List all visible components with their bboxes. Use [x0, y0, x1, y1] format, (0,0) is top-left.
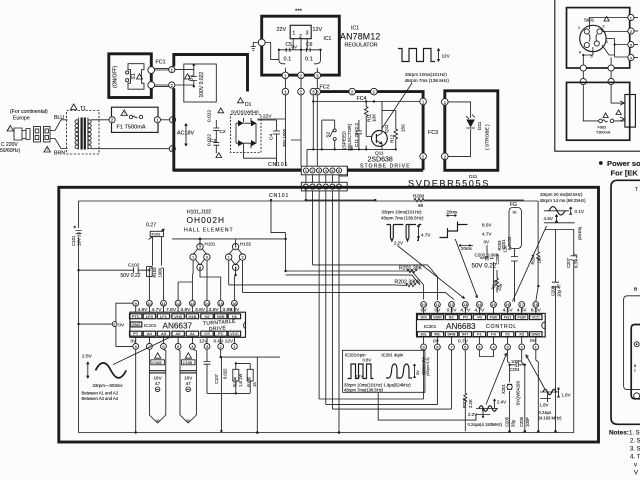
GND pin label: [130, 322, 142, 327]
pin leads into caps: [136, 349, 197, 432]
resistor R103: [147, 267, 153, 277]
svg-text:35V 1000: 35V 1000: [282, 128, 287, 147]
svg-text:!: !: [47, 148, 48, 152]
square wave pin7: [348, 364, 374, 379]
svg-text:20ms: 20ms: [447, 210, 459, 215]
svg-text:1.6V: 1.6V: [562, 393, 571, 398]
svg-text:1.8V: 1.8V: [540, 403, 549, 408]
switch S1: [128, 64, 144, 89]
pin 10 IC201: [421, 302, 427, 308]
svg-text:F902: F902: [598, 126, 607, 130]
svg-text:(SPEED: (SPEED: [342, 131, 348, 149]
svg-text:4.7V: 4.7V: [482, 232, 492, 237]
loop pins 5-4: [479, 350, 493, 357]
svg-text:00: 00: [513, 211, 517, 215]
resistor R105: [247, 369, 253, 381]
capacitor C4: [273, 120, 280, 150]
thick feed wire: pin1 up over to regulator enclosure: [174, 55, 423, 171]
svg-text:X201: X201: [501, 384, 506, 394]
wire 0V to inner edge: [79, 323, 113, 325]
svg-text:C204: C204: [510, 367, 521, 372]
svg-text:7.6V: 7.6V: [166, 307, 177, 313]
svg-text:H102: H102: [240, 242, 251, 247]
svg-text:14: 14: [205, 302, 209, 306]
svg-text:22V: 22V: [277, 27, 287, 33]
svg-text:T: T: [635, 187, 638, 193]
svg-text:4.7V: 4.7V: [152, 307, 163, 313]
svg-text:Europe: Europe: [13, 116, 30, 122]
pin 9 IC101: [133, 300, 139, 306]
svg-text:33μ: 33μ: [511, 419, 516, 427]
svg-text:F: F: [114, 323, 116, 327]
svg-text:68: 68: [418, 203, 424, 208]
pin 6 IC201: [462, 344, 468, 350]
svg-text:Power so: Power so: [607, 159, 640, 168]
thick FC2 bus to FC4: [321, 92, 424, 170]
svg-text:FC1: FC1: [156, 60, 166, 66]
capacitor C105: [180, 353, 196, 423]
pin 13 IC201: [462, 302, 468, 308]
IC101 top pin leads: [136, 306, 235, 312]
svg-text:C101: C101: [71, 235, 76, 246]
svg-text:3: 3: [507, 346, 509, 350]
ground symbol: [251, 43, 259, 51]
svg-text:CONTROL: CONTROL: [486, 324, 517, 330]
svg-text:S2: S2: [326, 131, 331, 137]
svg-text:FG1: FG1: [504, 315, 513, 320]
pin 12 IC201: [449, 302, 455, 308]
svg-text:5: 5: [331, 169, 333, 173]
FC1 terminals on switch box: [148, 67, 155, 74]
svg-text:C205: C205: [505, 416, 510, 427]
svg-text:1: 1: [578, 26, 580, 30]
svg-text:12V: 12V: [442, 54, 451, 59]
svg-text:T300mA: T300mA: [596, 131, 611, 135]
svg-text:V0: V0: [477, 315, 483, 320]
wire CN101-1 drop: [306, 189, 375, 200]
Power source heading: [599, 161, 603, 165]
strobe lamp D11: [448, 102, 470, 156]
capacitor C107: [204, 349, 222, 393]
svg-text:R103: R103: [152, 267, 157, 278]
svg-text:OH002H: OH002H: [187, 215, 226, 225]
svg-text:0.27: 0.27: [146, 223, 156, 229]
pointer line to Q11: [382, 83, 413, 129]
return wire loops to IC201 bottom pins: [319, 350, 476, 420]
diode bridge D1: [238, 98, 244, 103]
svg-text:50V 0.22: 50V 0.22: [472, 262, 497, 269]
svg-text:A3: A3: [161, 331, 167, 336]
pin 8 IC201: [435, 344, 441, 350]
svg-text:K103: K103: [152, 233, 161, 237]
svg-text:0.6V 12V: 0.6V 12V: [214, 339, 235, 345]
pointer to pin2: [526, 355, 545, 389]
svg-text:C11 25V2.2: C11 25V2.2: [354, 123, 359, 147]
svg-text:!: !: [124, 112, 125, 116]
svg-text:0V: 0V: [421, 308, 428, 314]
svg-text:3.8V: 3.8V: [209, 307, 220, 313]
svg-text:SVQW54193: SVQW54193: [516, 380, 521, 405]
svg-text:F1: F1: [477, 332, 482, 337]
svg-text:0V: 0V: [434, 308, 441, 314]
IC201 top voltages: [421, 308, 542, 314]
wires FC1 to pins: [155, 69, 169, 87]
svg-text:2: 2: [312, 169, 314, 173]
IC101 top voltages: [137, 307, 240, 313]
svg-text:2: 2: [603, 25, 605, 29]
FG wires down to IC201: [511, 249, 518, 303]
svg-text:For [EK: For [EK: [611, 169, 639, 178]
svg-text:IC201 ④pin: IC201 ④pin: [382, 353, 404, 358]
svg-text:D11: D11: [477, 121, 483, 130]
capacitor C102: [79, 269, 150, 271]
svg-text:4.7V: 4.7V: [474, 308, 485, 314]
svg-text:3: 3: [242, 256, 244, 260]
pointer FG note to pin16: [512, 226, 546, 302]
svg-text:3: 3: [206, 345, 208, 349]
transformer T901 rect: [625, 95, 636, 128]
pin 11 IC201: [435, 302, 441, 308]
svg-text:4.5V: 4.5V: [503, 308, 514, 314]
sine note pin2: [543, 389, 556, 395]
svg-text:0.6V: 0.6V: [447, 308, 458, 314]
pin 8 IC101: [133, 344, 139, 350]
svg-text:Q11: Q11: [384, 124, 390, 133]
pin 16 IC101: [232, 300, 238, 306]
connector pin 2 (FC2): [349, 88, 356, 95]
svg-text:13: 13: [463, 303, 467, 307]
capacitor C11: [356, 120, 362, 149]
svg-text:F1 T500mA: F1 T500mA: [117, 125, 146, 131]
svg-text:C206: C206: [519, 416, 524, 427]
pin 3 IC101: [204, 344, 210, 350]
cartridge detail box: [624, 296, 640, 390]
label: For continental Europe note: [0, 109, 48, 154]
D11 strobe box: [445, 91, 498, 171]
svg-text:CN101: CN101: [268, 162, 288, 168]
svg-text:v: v: [634, 463, 637, 469]
regulator enclosure box: [262, 16, 340, 75]
svg-text:2: 2: [220, 345, 222, 349]
terminal 1 motor: [628, 14, 634, 20]
svg-text:Notes:: Notes:: [609, 430, 629, 437]
svg-text:47: 47: [155, 381, 161, 386]
svg-text:4. T: 4. T: [630, 455, 640, 461]
svg-text:HALL ELEMENT: HALL ELEMENT: [184, 228, 234, 234]
svg-text:FC2: FC2: [320, 85, 330, 91]
svg-text:AN6683: AN6683: [446, 322, 476, 331]
svg-text:5: 5: [478, 346, 480, 350]
svg-text:17: 17: [520, 303, 524, 307]
svg-text:1: 1: [305, 169, 307, 173]
CN101 socket row 2: [301, 182, 347, 191]
svg-text:C107: C107: [214, 373, 219, 384]
svg-text:SSM: SSM: [433, 315, 442, 320]
svg-text:16V 33: 16V 33: [77, 232, 82, 246]
svg-text:1.8 1W: 1.8 1W: [238, 374, 243, 387]
svg-text:50V 0.22: 50V 0.22: [121, 273, 141, 279]
wires K103 to pins 10,11: [149, 237, 163, 301]
svg-text:15: 15: [491, 303, 495, 307]
pin 7 IC201: [449, 344, 455, 350]
connector pin 1 (FC4 top): [371, 88, 378, 95]
svg-text:AN6637: AN6637: [163, 321, 193, 330]
svg-text:0.24μs: 0.24μs: [539, 410, 552, 415]
svg-text:100V 0.022: 100V 0.022: [199, 72, 205, 98]
svg-text:AN78M12: AN78M12: [340, 32, 381, 42]
svg-text:9: 9: [423, 346, 425, 350]
pin 9 IC201: [421, 344, 427, 350]
pin 5 IC201: [477, 344, 483, 350]
connector pin 2 (AC line): [169, 146, 175, 152]
svg-text:(ON/OFF): (ON/OFF): [113, 65, 119, 88]
main board outer box: [59, 187, 599, 442]
connector pin 2 on F1 box: [109, 117, 115, 123]
svg-text:C106: C106: [152, 360, 161, 365]
svg-text:1: 1: [228, 256, 230, 260]
svg-text:3.8V: 3.8V: [195, 307, 206, 313]
svg-text:3.8V: 3.8V: [229, 307, 240, 313]
svg-text:B1: B1: [449, 315, 455, 320]
svg-text:PTC: PTC: [132, 314, 140, 319]
svg-text:11: 11: [162, 302, 166, 306]
AC plug P1: [14, 128, 30, 140]
svg-text:1: 1: [192, 256, 194, 260]
transistor Q11: [372, 131, 388, 147]
svg-text:2.2K: 2.2K: [468, 399, 473, 408]
wire T1 secondary to fuse: [91, 119, 111, 121]
switch S2: [322, 120, 335, 149]
pointer sine to A-pins: [113, 336, 172, 364]
svg-text:120: 120: [503, 245, 508, 253]
crystal X201: [508, 350, 525, 431]
svg-text:8: 8: [436, 346, 438, 350]
connector pin 3 (FC2): [310, 88, 317, 95]
svg-text:1: 1: [606, 40, 608, 44]
svg-text:C105: C105: [183, 360, 192, 365]
svg-text:P0: P0: [463, 315, 469, 320]
svg-text:REGULATOR: REGULATOR: [345, 43, 378, 49]
FC2 terminals row: [282, 88, 289, 95]
svg-text:Between A3 and A4: Between A3 and A4: [82, 396, 119, 401]
pin 14 IC201: [477, 302, 483, 308]
svg-text:9: 9: [135, 302, 137, 306]
svg-text:33L: 33L: [420, 332, 427, 337]
svg-text:LF1: LF1: [160, 314, 168, 319]
svg-text:150: 150: [401, 124, 406, 132]
svg-text:(EKEB): (EKEB): [577, 226, 582, 240]
bottom bus junction dots: [508, 430, 511, 433]
IC201 top pin labels: [417, 315, 542, 320]
svg-text:F0: F0: [491, 332, 496, 337]
svg-text:R105: R105: [247, 376, 252, 387]
svg-text:FC3: FC3: [428, 130, 438, 136]
connector pin 1 (C1 box): [169, 67, 175, 73]
pin 12 IC101: [175, 300, 181, 306]
svg-text:0.022: 0.022: [223, 368, 228, 379]
svg-text:BRN: BRN: [54, 151, 65, 157]
svg-text:INT: INT: [462, 332, 469, 337]
connector pin 2 on thick drop: [420, 153, 427, 160]
svg-text:0.022: 0.022: [207, 110, 213, 122]
hall output wires: [234, 274, 236, 276]
svg-text:0V: 0V: [484, 240, 491, 245]
svg-text:VCC: VCC: [230, 331, 239, 336]
svg-text:D1: D1: [245, 102, 252, 108]
svg-text:4: 4: [325, 169, 327, 173]
svg-text:4.5V: 4.5V: [544, 216, 554, 221]
terminal 4 motor: [628, 54, 634, 60]
pin 7 IC101: [147, 344, 153, 350]
svg-text:( STROBE ): ( STROBE ): [485, 124, 491, 150]
motor wires to terminals: [583, 18, 628, 65]
svg-text:LF0: LF0: [146, 314, 154, 319]
svg-text:45rpm 7ms (136.5Hz): 45rpm 7ms (136.5Hz): [405, 78, 450, 83]
pin 2 IC101: [218, 344, 224, 350]
svg-text:3.8V: 3.8V: [180, 307, 191, 313]
svg-text:45rpm 14 ms (68.25Hz): 45rpm 14 ms (68.25Hz): [540, 198, 587, 203]
svg-text:3: 3: [206, 256, 208, 260]
svg-text:C4: C4: [269, 134, 275, 140]
svg-text:6: 6: [338, 169, 340, 173]
resistor R11: [364, 102, 371, 137]
svg-text:0.1V: 0.1V: [355, 374, 364, 379]
IC201 top pin leads: [424, 307, 536, 313]
svg-text:10μ 47: 10μ 47: [557, 283, 562, 297]
pin 2 IC201: [519, 344, 525, 350]
svg-text:VCC: VCC: [532, 315, 541, 320]
FC terminals row on enclosure bottom: [282, 72, 289, 79]
svg-text:STORBE DRIVE: STORBE DRIVE: [360, 164, 411, 170]
connector pin 2 (C1 box): [169, 82, 175, 88]
svg-text:0V: 0V: [118, 322, 125, 328]
svg-text:SVDS1WB40: SVDS1WB40: [231, 110, 259, 115]
svg-text:3: 3: [318, 169, 320, 173]
svg-text:0.8V: 0.8V: [363, 358, 372, 363]
capacitor C6: [307, 48, 311, 52]
svg-text:13: 13: [190, 302, 194, 306]
svg-text:10: 10: [147, 302, 151, 306]
svg-text:33rpm 10ms(101Hz): 33rpm 10ms(101Hz): [405, 72, 447, 77]
svg-text:2.5V: 2.5V: [82, 354, 93, 360]
svg-text:V: V: [634, 471, 638, 477]
svg-text:1: 1: [233, 345, 235, 349]
svg-text:1: 1: [535, 346, 537, 350]
pin 16 IC201: [505, 302, 511, 308]
svg-text:CN101: CN101: [269, 193, 289, 199]
pin 15 IC201: [491, 302, 497, 308]
pointer to pin 14: [455, 239, 477, 298]
rounded wave pin4: [386, 364, 412, 378]
svg-text:H1B: H1B: [189, 314, 197, 319]
pointer to pin 13: [397, 246, 464, 299]
svg-text:16: 16: [232, 302, 236, 306]
IC101 bottom pin leads: [136, 337, 235, 343]
svg-text:18: 18: [534, 303, 538, 307]
warning triangle BRN: [44, 147, 50, 153]
connector pin 1 on F1 box: [154, 117, 160, 123]
svg-text:10: 10: [421, 303, 425, 307]
resistor R12: [394, 111, 398, 150]
wire FC4 row: [313, 95, 420, 149]
svg-text:100K: 100K: [158, 268, 163, 278]
cross wires to IC201: [313, 265, 438, 300]
page frame line: [555, 0, 640, 151]
IC201 bottom pin labels: [417, 332, 542, 337]
svg-text:PC: PC: [218, 331, 224, 336]
svg-text:C207: C207: [566, 257, 571, 268]
pin 15 IC101: [218, 300, 224, 306]
svg-text:2. S: 2. S: [630, 439, 640, 445]
svg-text:C102: C102: [128, 262, 140, 268]
svg-text:1: 1: [634, 369, 636, 373]
op-amp/IC U101 AN6637 body: [130, 312, 246, 337]
warning triangle (mains): [7, 126, 13, 132]
svg-text:IC101: IC101: [144, 323, 157, 328]
connector pin 1 on thick drop: [420, 98, 427, 105]
svg-text:H2: H2: [204, 314, 210, 319]
power switch box (ON/OFF): [109, 54, 152, 98]
small connector box S2 out: [339, 167, 348, 177]
fuse F902: [599, 119, 603, 123]
svg-text:SRB: SRB: [447, 332, 456, 337]
chassis terminal circle: [258, 39, 265, 46]
svg-text:7: 7: [450, 346, 452, 350]
pin 13 IC101: [190, 300, 196, 306]
svg-text:8.5V: 8.5V: [531, 308, 542, 314]
fuse F1 box: [112, 107, 159, 132]
svg-text:R12: R12: [390, 134, 395, 143]
svg-text:S/S: S/S: [420, 315, 427, 320]
svg-text:6.3V33: 6.3V33: [507, 236, 512, 250]
svg-text:Between A1 and A2: Between A1 and A2: [82, 391, 119, 396]
svg-text:R208: R208: [413, 193, 424, 198]
pin 17 IC201: [519, 302, 525, 308]
svg-text:T1: T1: [80, 106, 86, 112]
svg-text:20ms: 20ms: [461, 246, 473, 251]
wires around IC1: [265, 39, 320, 76]
op-amp/IC U201 AN6683 body: [417, 313, 546, 337]
pin 10 IC101: [147, 300, 153, 306]
svg-text:0.1: 0.1: [284, 57, 292, 63]
fuse element F1: [112, 115, 157, 120]
svg-text:4.7V: 4.7V: [421, 233, 431, 238]
warning triangle F1: [121, 110, 127, 116]
svg-text:R104: R104: [233, 376, 238, 387]
pin 6 IC101: [161, 344, 167, 350]
svg-text:C6: C6: [306, 42, 313, 48]
svg-text:50/60Hz): 50/60Hz): [0, 148, 21, 154]
waveform annotation box: [343, 350, 425, 392]
connector pin 1 (strobe): [442, 99, 449, 106]
capacitor C1: [191, 65, 197, 86]
pin 5 IC101: [175, 344, 181, 350]
svg-text:33rpm 20 ms(50.5Hz): 33rpm 20 ms(50.5Hz): [540, 192, 583, 197]
svg-text:2V: 2V: [416, 370, 420, 375]
svg-text:4.7V: 4.7V: [460, 308, 471, 314]
svg-text:IC201: IC201: [424, 324, 437, 329]
long verticals from CN101: [313, 191, 340, 433]
svg-text:8.5V: 8.5V: [482, 223, 492, 228]
svg-text:CS: CS: [204, 331, 210, 336]
12V square waveform: [398, 49, 435, 62]
stage bottom rail: [307, 149, 396, 167]
wires bridge area: [244, 95, 318, 166]
svg-text:0.1: 0.1: [305, 57, 313, 63]
wires hall to IC101 pins: [178, 260, 242, 300]
svg-text:4.9V: 4.9V: [137, 307, 148, 313]
wire BRN: [50, 139, 68, 149]
